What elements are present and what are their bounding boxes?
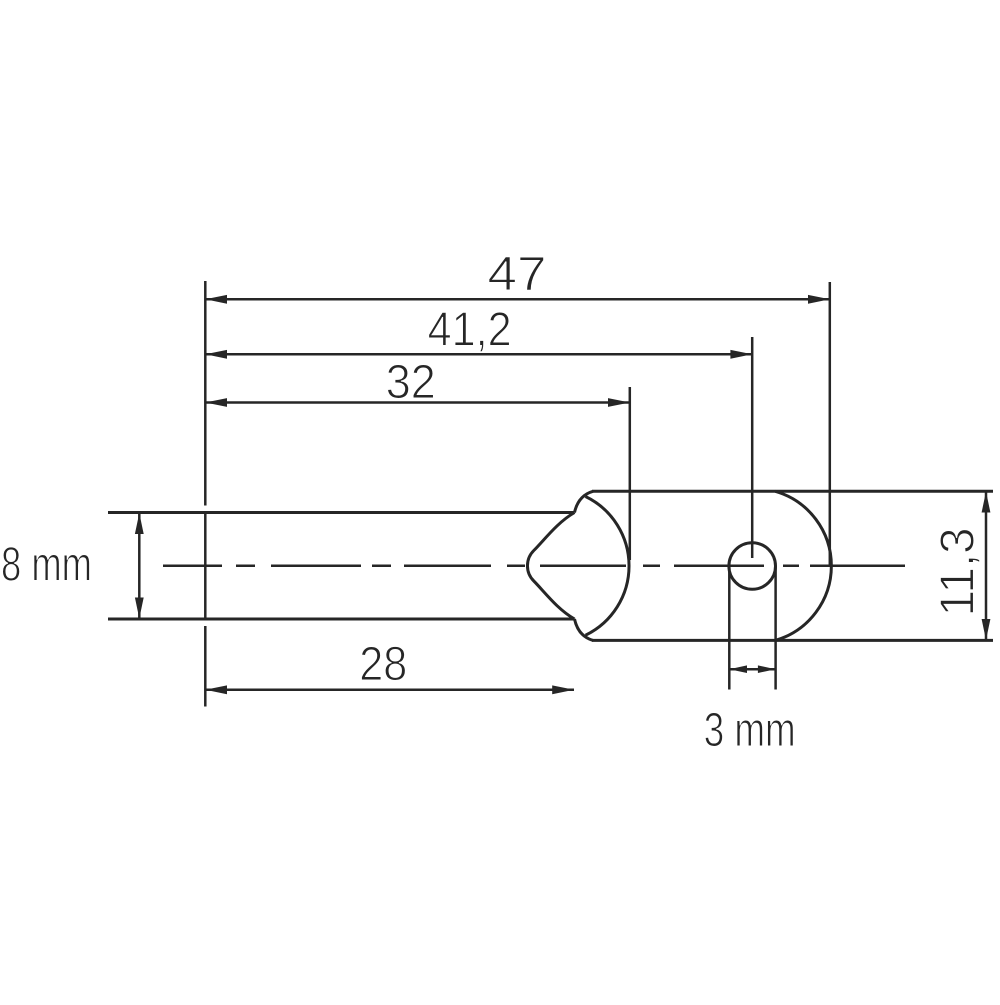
body top line (also 11,3 extension) (592, 490, 993, 493)
dimension line 47 (205, 298, 830, 301)
dimension line 32 (205, 401, 630, 404)
conical tip outline (527, 513, 574, 620)
arrow 41,2 right (730, 350, 752, 359)
arrow 11,3 up (982, 492, 991, 513)
svg-text:41,2: 41,2 (428, 303, 512, 356)
svg-text:8 mm: 8 mm (1, 539, 92, 592)
arrow 8mm up (135, 513, 144, 534)
dimension line 8mm vertical (138, 513, 141, 619)
top shoulder / cap corner (575, 491, 594, 512)
arrow 3mm right (758, 665, 776, 673)
arrow 41,2 left (205, 350, 227, 359)
arrow 32 right (608, 398, 630, 407)
extension line x=752 (dim 41,2) (751, 337, 754, 558)
arrow 47 right (808, 295, 830, 304)
svg-text:32: 32 (386, 356, 436, 409)
dimension line 41,2 (205, 353, 752, 356)
svg-text:3 mm: 3 mm (704, 704, 796, 757)
arrow 32 left (205, 398, 227, 407)
arrow 11,3 down (982, 619, 991, 640)
extension line x=630 (dim 32) (629, 387, 632, 560)
tube top outline line (108, 511, 575, 514)
svg-text:28: 28 (359, 638, 407, 691)
body right end arc (775, 491, 831, 640)
body bottom line (also 11,3 extension) (592, 639, 993, 642)
dimension line 3mm (729, 668, 775, 671)
extension line 3mm left (728, 566, 731, 690)
dimension line 28 (205, 689, 574, 692)
tube bottom outline line (108, 618, 575, 621)
arrow 8mm down (135, 598, 144, 619)
svg-text:11,3: 11,3 (932, 527, 985, 616)
arrow 47 left (205, 295, 227, 304)
bottom shoulder / cap corner (575, 619, 594, 640)
svg-text:47: 47 (488, 248, 547, 301)
glass dome arc (586, 497, 630, 636)
left extension line x=205 (204, 281, 207, 707)
arrow 28 left (205, 685, 227, 694)
hole circle 3mm (729, 543, 776, 590)
extension line 3mm right (774, 566, 777, 690)
extension line x=830 (dim 47) (829, 282, 832, 566)
centerline (dash-dot axis) (163, 565, 905, 568)
arrow 3mm left (729, 665, 747, 673)
dimension line 11,3 vertical (985, 492, 988, 641)
arrow 28 right (552, 685, 574, 694)
